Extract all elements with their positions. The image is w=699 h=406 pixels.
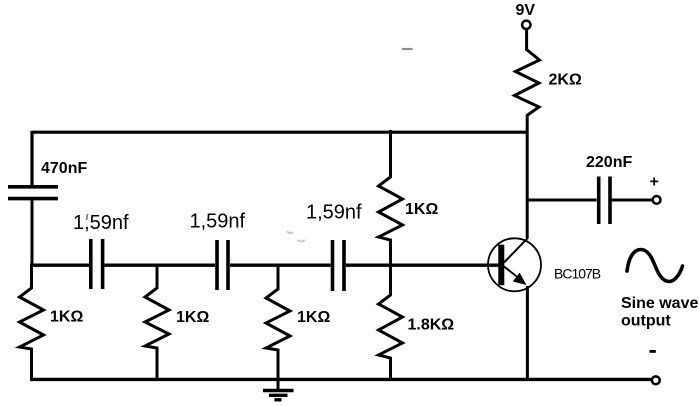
svg-text:1,59nf: 1,59nf — [306, 202, 362, 224]
svg-text:470nF: 470nF — [41, 160, 87, 177]
svg-text:1KΩ: 1KΩ — [297, 309, 330, 326]
svg-text:BC107B: BC107B — [554, 266, 601, 282]
svg-text:1KΩ: 1KΩ — [405, 201, 438, 218]
svg-text:1,59nf: 1,59nf — [190, 211, 246, 233]
svg-text:1KΩ: 1KΩ — [176, 309, 209, 326]
svg-text:2KΩ: 2KΩ — [549, 72, 582, 89]
svg-text:+: + — [650, 174, 659, 191]
svg-text:1,59nf: 1,59nf — [73, 212, 129, 234]
svg-text:1KΩ: 1KΩ — [50, 309, 83, 326]
svg-text:output: output — [621, 313, 671, 330]
svg-text:1.8KΩ: 1.8KΩ — [408, 317, 455, 334]
svg-text:9V: 9V — [516, 2, 536, 19]
svg-text:Sine wave: Sine wave — [621, 295, 698, 312]
svg-text:220nF: 220nF — [586, 154, 632, 171]
